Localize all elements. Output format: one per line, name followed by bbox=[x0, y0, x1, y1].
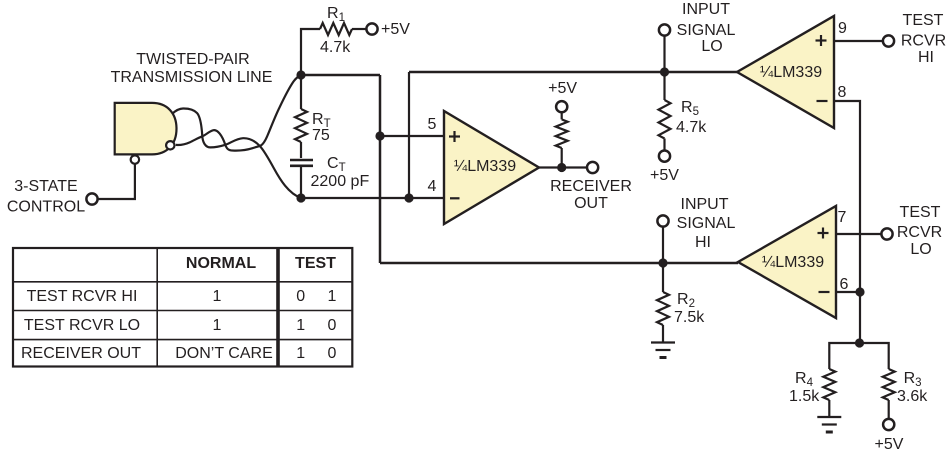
node A junction bbox=[296, 70, 305, 79]
svg-text:2200 pF: 2200 pF bbox=[311, 173, 370, 190]
svg-text:TRANSMISSION LINE: TRANSMISSION LINE bbox=[111, 69, 273, 86]
resistor RT bbox=[300, 75, 302, 109]
U1 output wire bbox=[539, 166, 587, 168]
svg-text:TEST RCVR HI: TEST RCVR HI bbox=[27, 288, 138, 305]
svg-text:3.6k: 3.6k bbox=[897, 388, 928, 405]
svg-text:+5V: +5V bbox=[650, 167, 679, 184]
op-amp U1 1/4LM339 bbox=[444, 111, 539, 224]
wire vertical x380 down to bottom bus bbox=[379, 75, 382, 263]
gate inverted output bubble bbox=[166, 141, 174, 149]
svg-text:OUT: OUT bbox=[574, 195, 608, 212]
resistor R2 bbox=[662, 263, 664, 292]
op-amp U2 1/4LM339 (mirrored) bbox=[737, 16, 834, 128]
svg-text:RECEIVER OUT: RECEIVER OUT bbox=[21, 345, 141, 362]
svg-text:4: 4 bbox=[428, 178, 437, 195]
terminal RECEIVER OUT bbox=[587, 162, 598, 173]
svg-text:0: 0 bbox=[296, 288, 305, 305]
wire vertical x409 up bbox=[408, 72, 410, 198]
svg-text:7.5k: 7.5k bbox=[674, 309, 705, 326]
U3 minus input symbol bbox=[819, 291, 830, 293]
pin 7 wire bbox=[836, 233, 882, 235]
terminal +5V (R5) bbox=[659, 151, 670, 162]
wire bottom bus to U3 apex bbox=[380, 262, 738, 265]
svg-text:8: 8 bbox=[838, 84, 847, 101]
svg-text:LO: LO bbox=[701, 38, 722, 55]
terminal INPUT SIGNAL HI bbox=[657, 215, 668, 226]
svg-text:7: 7 bbox=[838, 209, 847, 226]
resistor R5 bbox=[663, 72, 665, 100]
svg-text:¼LM339: ¼LM339 bbox=[454, 158, 516, 175]
table row lines bbox=[13, 281, 352, 283]
ground (R2) bbox=[651, 341, 675, 343]
svg-text:HI: HI bbox=[918, 49, 934, 66]
svg-text:CONTROL: CONTROL bbox=[7, 199, 85, 216]
svg-text:SIGNAL: SIGNAL bbox=[677, 215, 736, 232]
svg-text:TEST: TEST bbox=[295, 255, 336, 272]
svg-text:1: 1 bbox=[296, 317, 305, 334]
svg-text:¼LM339: ¼LM339 bbox=[760, 64, 822, 81]
pin 9 wire bbox=[834, 40, 883, 42]
truth table bbox=[13, 248, 352, 367]
svg-text:5: 5 bbox=[428, 116, 437, 133]
terminal TEST RCVR LO bbox=[881, 228, 892, 239]
svg-text:1: 1 bbox=[296, 345, 305, 362]
svg-text:SIGNAL: SIGNAL bbox=[677, 22, 736, 39]
svg-text:+5V: +5V bbox=[548, 80, 577, 97]
terminal +5V (R1) bbox=[366, 23, 377, 34]
svg-text:DON’T CARE: DON’T CARE bbox=[175, 345, 273, 362]
svg-text:TEST: TEST bbox=[903, 12, 944, 29]
pin 8 wire to vertical bus bbox=[834, 101, 860, 343]
gate enable bubble bbox=[131, 155, 139, 163]
svg-text:TEST: TEST bbox=[900, 204, 941, 221]
svg-text:6: 6 bbox=[840, 276, 849, 293]
wire enable to 3-state control terminal bbox=[98, 164, 135, 199]
U1 plus input symbol bbox=[449, 135, 460, 137]
U3 plus input symbol bbox=[818, 232, 829, 234]
svg-text:RCVR: RCVR bbox=[897, 224, 942, 241]
svg-text:4.7k: 4.7k bbox=[676, 119, 707, 136]
junction pin5 branch bbox=[375, 131, 384, 140]
table column line 1 bbox=[156, 248, 158, 367]
terminal +5V (R3) bbox=[883, 419, 894, 430]
op-amp U3 1/4LM339 (mirrored) bbox=[738, 206, 836, 318]
svg-text:75: 75 bbox=[312, 127, 330, 144]
terminal 3-STATE CONTROL bbox=[86, 193, 97, 204]
resistor R1 bbox=[320, 23, 352, 35]
svg-text:9: 9 bbox=[838, 20, 847, 37]
U1 minus input symbol bbox=[450, 197, 460, 199]
svg-text:1: 1 bbox=[328, 288, 337, 305]
svg-text:LO: LO bbox=[910, 241, 931, 258]
terminal TEST RCVR HI bbox=[883, 35, 894, 46]
U2 plus input symbol bbox=[816, 39, 827, 41]
junction R3/R4 bus bbox=[855, 338, 864, 347]
svg-text:+5V: +5V bbox=[875, 436, 904, 453]
svg-text:4.7k: 4.7k bbox=[320, 39, 351, 56]
twisted pair wire strand B (bubble output to node A) bbox=[176, 76, 301, 151]
junction pin 6 bbox=[855, 287, 864, 296]
twisted pair wire strand A (top output to node B) bbox=[173, 108, 302, 198]
svg-text:1: 1 bbox=[213, 288, 222, 305]
junction input signal lo bbox=[660, 67, 669, 76]
capacitor CT bbox=[290, 159, 313, 162]
svg-text:TWISTED-PAIR: TWISTED-PAIR bbox=[136, 51, 249, 68]
ground (R4) bbox=[817, 416, 841, 418]
pull-up resistor (receiver out) bbox=[561, 148, 563, 168]
svg-text:RECEIVER: RECEIVER bbox=[550, 178, 632, 195]
wire node A up to R1 bbox=[301, 29, 320, 75]
pin 6 wire bbox=[836, 291, 860, 293]
svg-text:1.5k: 1.5k bbox=[789, 388, 820, 405]
svg-text:NORMAL: NORMAL bbox=[186, 255, 256, 272]
svg-text:TEST RCVR LO: TEST RCVR LO bbox=[24, 317, 140, 334]
svg-text:1: 1 bbox=[213, 317, 222, 334]
table thick column line bbox=[276, 248, 280, 367]
line driver gate U4 bbox=[115, 103, 177, 154]
wire node A right bbox=[301, 74, 380, 77]
terminal +5V (pull-up) bbox=[556, 101, 567, 112]
svg-text:+5V: +5V bbox=[381, 21, 410, 38]
wire to pin 5 bbox=[380, 135, 444, 137]
resistor R3 bbox=[883, 369, 895, 400]
junction input signal hi bbox=[658, 258, 667, 267]
wire R4/R3 tee bbox=[829, 343, 888, 369]
node B junction (CT bottom) bbox=[296, 193, 305, 202]
svg-text:3-STATE: 3-STATE bbox=[14, 178, 77, 195]
svg-text:RCVR: RCVR bbox=[901, 33, 946, 50]
wire node B to pin 4 bbox=[301, 197, 444, 199]
svg-text:INPUT: INPUT bbox=[682, 1, 730, 18]
U2 minus input symbol bbox=[817, 100, 828, 102]
wire top bus to U2 apex bbox=[409, 71, 737, 74]
svg-text:0: 0 bbox=[328, 317, 337, 334]
junction pin4 / vertical riser bbox=[404, 193, 413, 202]
junction receiver out bbox=[557, 163, 566, 172]
svg-text:0: 0 bbox=[328, 345, 337, 362]
svg-text:INPUT: INPUT bbox=[681, 196, 729, 213]
svg-text:¼LM339: ¼LM339 bbox=[762, 254, 824, 271]
resistor R4 bbox=[823, 369, 835, 400]
svg-text:HI: HI bbox=[695, 234, 711, 251]
terminal INPUT SIGNAL LO bbox=[659, 24, 670, 35]
